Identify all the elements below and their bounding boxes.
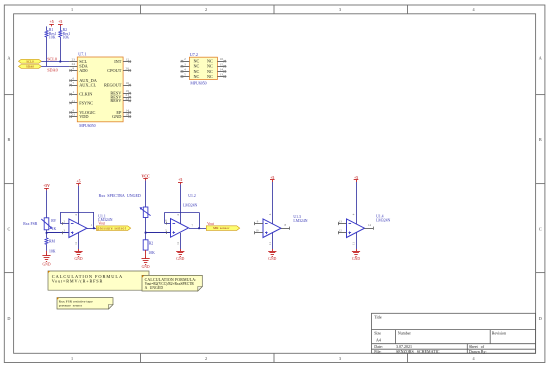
svg-text:14: 14: [368, 223, 372, 227]
op-amp U1.4 LM324N: [339, 213, 391, 245]
note calculation formula stage1: [48, 271, 149, 290]
svg-text:10K: 10K: [148, 251, 155, 255]
svg-text:Revision: Revision: [492, 330, 506, 335]
wire divider to U1.2 +input: [146, 231, 171, 234]
wire +5 to U1.3 pin4: [272, 182, 274, 224]
resistor R1 10K: [45, 26, 56, 66]
wire U1.2 output: [189, 228, 206, 230]
svg-text:15: 15: [220, 62, 224, 66]
svg-text:MPU6050: MPU6050: [79, 124, 95, 128]
rheostat RV 1K (Rxx FSR): [23, 218, 56, 231]
svg-text:AUX_CL: AUX_CL: [79, 83, 96, 88]
svg-text:SDA0: SDA0: [47, 67, 57, 72]
svg-text:C: C: [8, 226, 11, 231]
svg-text:10K: 10K: [63, 36, 70, 40]
svg-text:23: 23: [72, 58, 76, 62]
svg-text:VDD: VDD: [79, 114, 88, 119]
svg-text:Size: Size: [374, 331, 381, 336]
wire RV to RM: [46, 230, 48, 238]
svg-text:LM324N: LM324N: [376, 219, 390, 223]
resistor R2 10K stage2: [143, 240, 155, 255]
wire RV2 to R2: [145, 218, 147, 240]
port SCL0: [19, 59, 42, 63]
note FSR description: [57, 298, 113, 309]
op-amp U1.3 LM324N: [256, 213, 308, 245]
U1.3 +input stub: [255, 231, 264, 234]
U1.3 output stub: [281, 227, 290, 230]
svg-text:11: 11: [176, 241, 180, 244]
svg-text:13: 13: [72, 113, 76, 117]
svg-text:2: 2: [205, 7, 207, 12]
svg-text:3: 3: [339, 7, 341, 12]
svg-text:MR sensor: MR sensor: [213, 226, 230, 230]
svg-text:LM324N: LM324N: [293, 219, 307, 223]
wire SDA0 to U7.1 SDA: [41, 66, 69, 68]
svg-text:U7.2: U7.2: [190, 52, 198, 57]
ground U1.4: [356, 249, 358, 251]
svg-text:Vout=RMV/(R+RFSR: Vout=RMV/(R+RFSR: [52, 278, 103, 283]
feedback wire U1.2: [165, 212, 200, 228]
svg-text:CLKIN: CLKIN: [79, 92, 92, 97]
U1.4 +input stub: [338, 231, 347, 234]
wire U1.4 pin11 to ground: [356, 233, 358, 250]
svg-text:INT: INT: [114, 59, 122, 64]
svg-text:NC: NC: [194, 74, 200, 79]
rheostat Rxx SPECTRA UNGED: [99, 193, 151, 218]
wire +5 to U1.1 pin4: [78, 186, 80, 224]
svg-text:B: B: [539, 137, 542, 142]
svg-text:12: 12: [339, 229, 343, 233]
svg-text:1: 1: [71, 356, 73, 361]
svg-text:LM324N: LM324N: [183, 204, 197, 208]
svg-text:MPU6050: MPU6050: [190, 81, 206, 85]
wire U1.1 output: [87, 228, 97, 230]
svg-text:GND: GND: [268, 257, 276, 261]
svg-text:File:: File:: [374, 349, 381, 354]
port MR sensor: [206, 226, 239, 231]
svg-text:+5: +5: [58, 20, 62, 24]
svg-text:SCL0: SCL0: [47, 57, 57, 62]
svg-text:FSYNC: FSYNC: [79, 100, 93, 105]
svg-text:Vout: Vout: [207, 222, 214, 226]
svg-text:+5: +5: [50, 20, 54, 24]
svg-text:SENZORS SCHEMATIC: SENZORS SCHEMATIC: [396, 349, 440, 354]
svg-text:R2: R2: [149, 241, 154, 245]
svg-text:13: 13: [220, 73, 224, 77]
U1.4 output stub: [365, 227, 374, 230]
wire U1.2 pin11 to ground: [180, 233, 182, 249]
U1.3 -input stub: [255, 222, 264, 225]
svg-text:REGOUT: REGOUT: [104, 83, 122, 88]
svg-text:GND: GND: [112, 114, 121, 119]
junction U1.1 output: [93, 227, 95, 229]
svg-text:1: 1: [71, 7, 73, 12]
svg-text:A: A: [7, 56, 10, 61]
svg-text:D: D: [7, 316, 10, 321]
svg-text:SDA0: SDA0: [26, 65, 34, 69]
junction R2-SCL: [59, 60, 61, 62]
wire VCC to RV2: [145, 181, 147, 207]
svg-text:U7.1: U7.1: [78, 52, 86, 57]
resistor R2 10K: [59, 26, 70, 61]
svg-text:10K: 10K: [49, 36, 56, 40]
svg-text:11: 11: [72, 99, 76, 103]
svg-text:B: B: [8, 137, 11, 142]
svg-text:+5: +5: [178, 178, 182, 182]
svg-text:AD0: AD0: [79, 68, 87, 73]
svg-text:U1.2: U1.2: [188, 194, 196, 198]
svg-text:Vout: Vout: [98, 222, 105, 226]
svg-text:SCL0: SCL0: [26, 59, 34, 63]
svg-text:GND: GND: [176, 257, 184, 261]
ground U1.2: [180, 249, 182, 251]
svg-text:GND: GND: [75, 257, 83, 261]
junction divider stage2: [145, 232, 147, 234]
wire +5 to U1.2 pin4: [180, 184, 182, 223]
svg-text:C: C: [539, 226, 542, 231]
svg-text:Number: Number: [398, 330, 412, 335]
svg-text:RV: RV: [51, 219, 56, 223]
svg-text:Title: Title: [374, 314, 382, 319]
wire SCL0 to U7.1 SCL: [41, 61, 69, 63]
svg-text:RM: RM: [49, 239, 56, 243]
svg-text:Drawn By:: Drawn By:: [469, 349, 487, 354]
wire +5 to U1.4 pin4: [356, 182, 358, 224]
port SDA0: [19, 65, 42, 69]
junction U1.2 output: [198, 227, 200, 229]
op-amp U1.1 LM324N: [63, 214, 112, 245]
svg-text:A: A: [539, 56, 542, 61]
svg-text:Rxx FSR: Rxx FSR: [23, 222, 38, 226]
svg-text:Rxx SPECTRA UNGED: Rxx SPECTRA UNGED: [99, 193, 141, 198]
svg-text:GND: GND: [352, 257, 360, 261]
svg-text:VCC: VCC: [141, 174, 149, 178]
wire U1.3 pin11 to ground: [272, 233, 274, 249]
junction divider stage1: [46, 232, 48, 234]
svg-text:GND: GND: [43, 263, 51, 267]
svg-text:16: 16: [220, 57, 224, 61]
svg-text:1K: 1K: [52, 227, 57, 231]
wire divider to U1.1 +input: [47, 231, 69, 234]
IC U7.1 MPU6050: [69, 52, 131, 129]
svg-text:+5V: +5V: [43, 184, 50, 188]
svg-text:pressure sensor: pressure sensor: [98, 226, 127, 230]
wire +5V to RV: [46, 190, 48, 217]
svg-text:D: D: [539, 316, 542, 321]
svg-text:10: 10: [256, 229, 260, 233]
IC U7.2 MPU6050 (NC pins): [180, 52, 226, 86]
ground U1.3: [272, 249, 274, 251]
svg-text:GND: GND: [142, 265, 150, 269]
resistor RM 10K: [45, 238, 56, 254]
port pressure sensor: [96, 226, 130, 231]
svg-text:13: 13: [339, 219, 343, 223]
svg-text:14: 14: [220, 67, 224, 71]
svg-text:11: 11: [268, 242, 272, 245]
svg-text:CPOUT: CPOUT: [107, 68, 121, 73]
svg-text:10K: 10K: [49, 250, 56, 254]
note calculation formula stage2: [142, 275, 202, 291]
svg-text:11: 11: [74, 241, 78, 244]
ground below RM: [42, 251, 50, 267]
svg-text:A UNGED: A UNGED: [145, 286, 164, 290]
ground below R2: [142, 250, 150, 269]
svg-text:2: 2: [205, 356, 207, 361]
svg-text:A4: A4: [376, 337, 381, 342]
feedback wire U1.1: [60, 212, 94, 228]
ground U1.1: [78, 249, 80, 251]
svg-text:3: 3: [339, 356, 341, 361]
svg-text:pressure sensor: pressure sensor: [59, 304, 83, 308]
op-amp U1.2 LM324N: [165, 194, 197, 245]
svg-text:RESV: RESV: [110, 98, 122, 103]
svg-text:+5: +5: [76, 180, 80, 184]
U1.4 -input stub: [338, 222, 347, 225]
svg-text:NC: NC: [207, 74, 213, 79]
wire U1.1 pin11 to ground: [78, 233, 80, 250]
svg-text:11: 11: [352, 242, 356, 245]
